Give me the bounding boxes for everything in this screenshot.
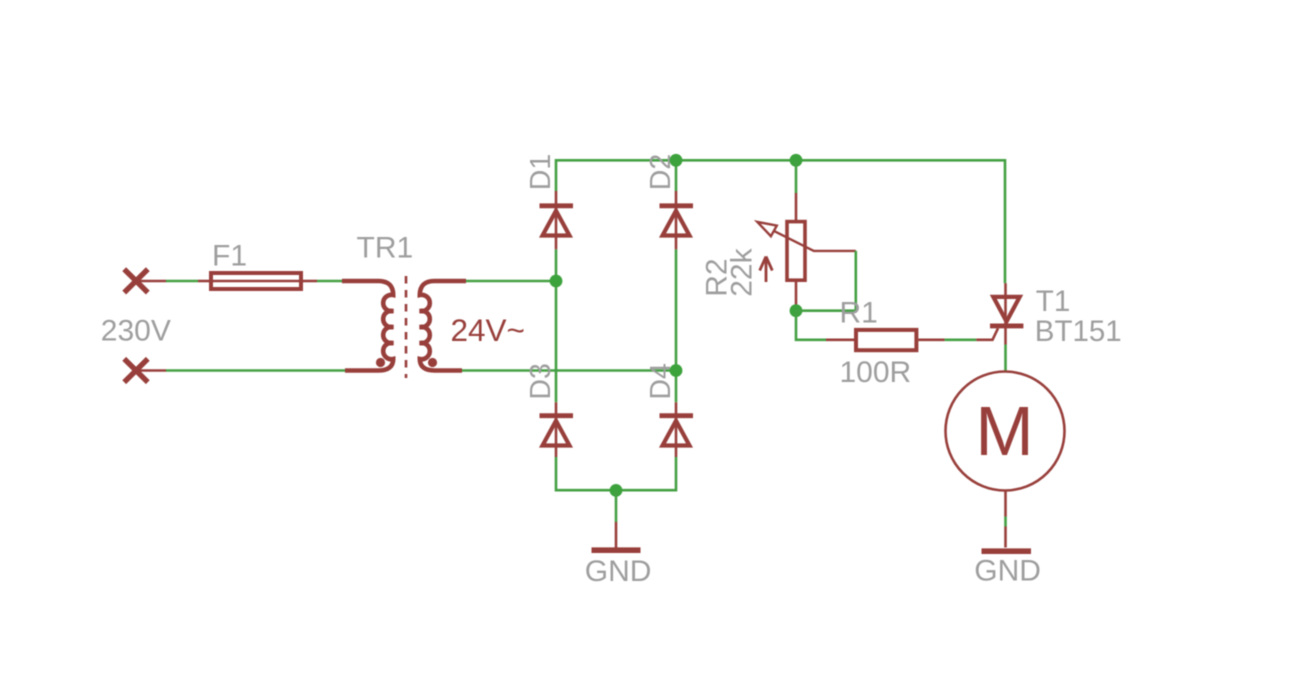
wire X1 to F1: [166, 280, 198, 283]
thyristor T1: [990, 283, 1023, 344]
wire D2 bottom: [675, 249, 678, 402]
svg-text:M: M: [975, 392, 1033, 470]
wire X2 to TR1: [166, 369, 345, 372]
pin GND2: [1004, 527, 1007, 548]
terminal X2 (230V bottom): [124, 359, 148, 382]
pin R1 left: [826, 338, 856, 341]
junction node D2 top rail: [670, 154, 683, 167]
junction node TR1-D2-D4: [670, 364, 683, 377]
svg-text:22k: 22k: [725, 247, 758, 296]
svg-text:R1: R1: [840, 296, 878, 329]
wire bottom rail to GND: [615, 490, 618, 522]
pin T1 gate: [976, 328, 998, 340]
R2 adjust arrow: [760, 257, 773, 283]
svg-text:D3: D3: [525, 363, 557, 399]
svg-text:GND: GND: [974, 554, 1041, 587]
pin motor bottom: [1004, 491, 1007, 517]
svg-text:T1: T1: [1036, 285, 1070, 318]
wire motor to GND2: [1004, 517, 1007, 527]
wire T1 to motor: [1004, 345, 1007, 372]
TR1 secondary phase dot: [428, 358, 437, 367]
junction node TR1-D1-D3: [550, 275, 563, 288]
transformer TR1 primary winding: [342, 281, 393, 371]
potentiometer R2 wiper arrow: [757, 222, 856, 251]
wire D2 top: [675, 160, 678, 191]
wire node to R1: [796, 311, 826, 340]
svg-text:GND: GND: [585, 555, 652, 588]
svg-text:F1: F1: [212, 239, 247, 272]
pin X1: [136, 280, 166, 283]
svg-text:D1: D1: [525, 154, 557, 190]
pin R2 bottom: [795, 281, 798, 305]
transformer TR1 secondary winding: [420, 281, 466, 371]
motor M1 body: [946, 372, 1065, 491]
pin R2 top: [795, 193, 798, 221]
wire TR1 bottom to D4: [462, 369, 676, 372]
diode D4: [660, 402, 694, 457]
ground GND2: [982, 548, 1032, 554]
pin X2: [136, 369, 166, 372]
wire R2 bottom to node: [795, 305, 798, 311]
diode D1: [540, 191, 574, 249]
wire node to D3: [555, 281, 558, 402]
wire top rail to R2: [795, 160, 798, 193]
svg-text:TR1: TR1: [357, 232, 414, 265]
junction node R2 wiper: [790, 304, 803, 317]
pin R1 right: [918, 338, 944, 341]
pin F1 left: [198, 280, 209, 283]
wire R1 to gate: [945, 338, 977, 341]
svg-text:24V~: 24V~: [451, 312, 525, 348]
terminal X1 (230V top): [124, 269, 148, 292]
svg-text:100R: 100R: [840, 356, 912, 389]
resistor R1: [856, 330, 916, 350]
wire D1 to node: [555, 249, 558, 281]
wire TR1 top to bridge: [466, 280, 556, 283]
junction node R2 top rail: [790, 154, 803, 167]
wire D3 to bottom rail: [556, 457, 676, 490]
wire F1 to TR1: [317, 280, 342, 283]
potentiometer R2 body: [787, 222, 805, 281]
svg-text:BT151: BT151: [1035, 315, 1122, 348]
wire wiper loop: [796, 251, 856, 311]
svg-text:230V: 230V: [101, 315, 171, 348]
ground GND1: [592, 547, 641, 553]
fuse F1: [209, 273, 303, 289]
TR1 core: [405, 276, 408, 378]
TR1 primary phase dot: [376, 358, 385, 367]
junction node bottom rail GND: [610, 484, 623, 497]
pin GND1: [615, 522, 618, 548]
wire top rail: [556, 160, 1005, 283]
pin F1 right: [303, 280, 317, 283]
diode D2: [660, 191, 694, 249]
diode D3: [540, 402, 574, 457]
